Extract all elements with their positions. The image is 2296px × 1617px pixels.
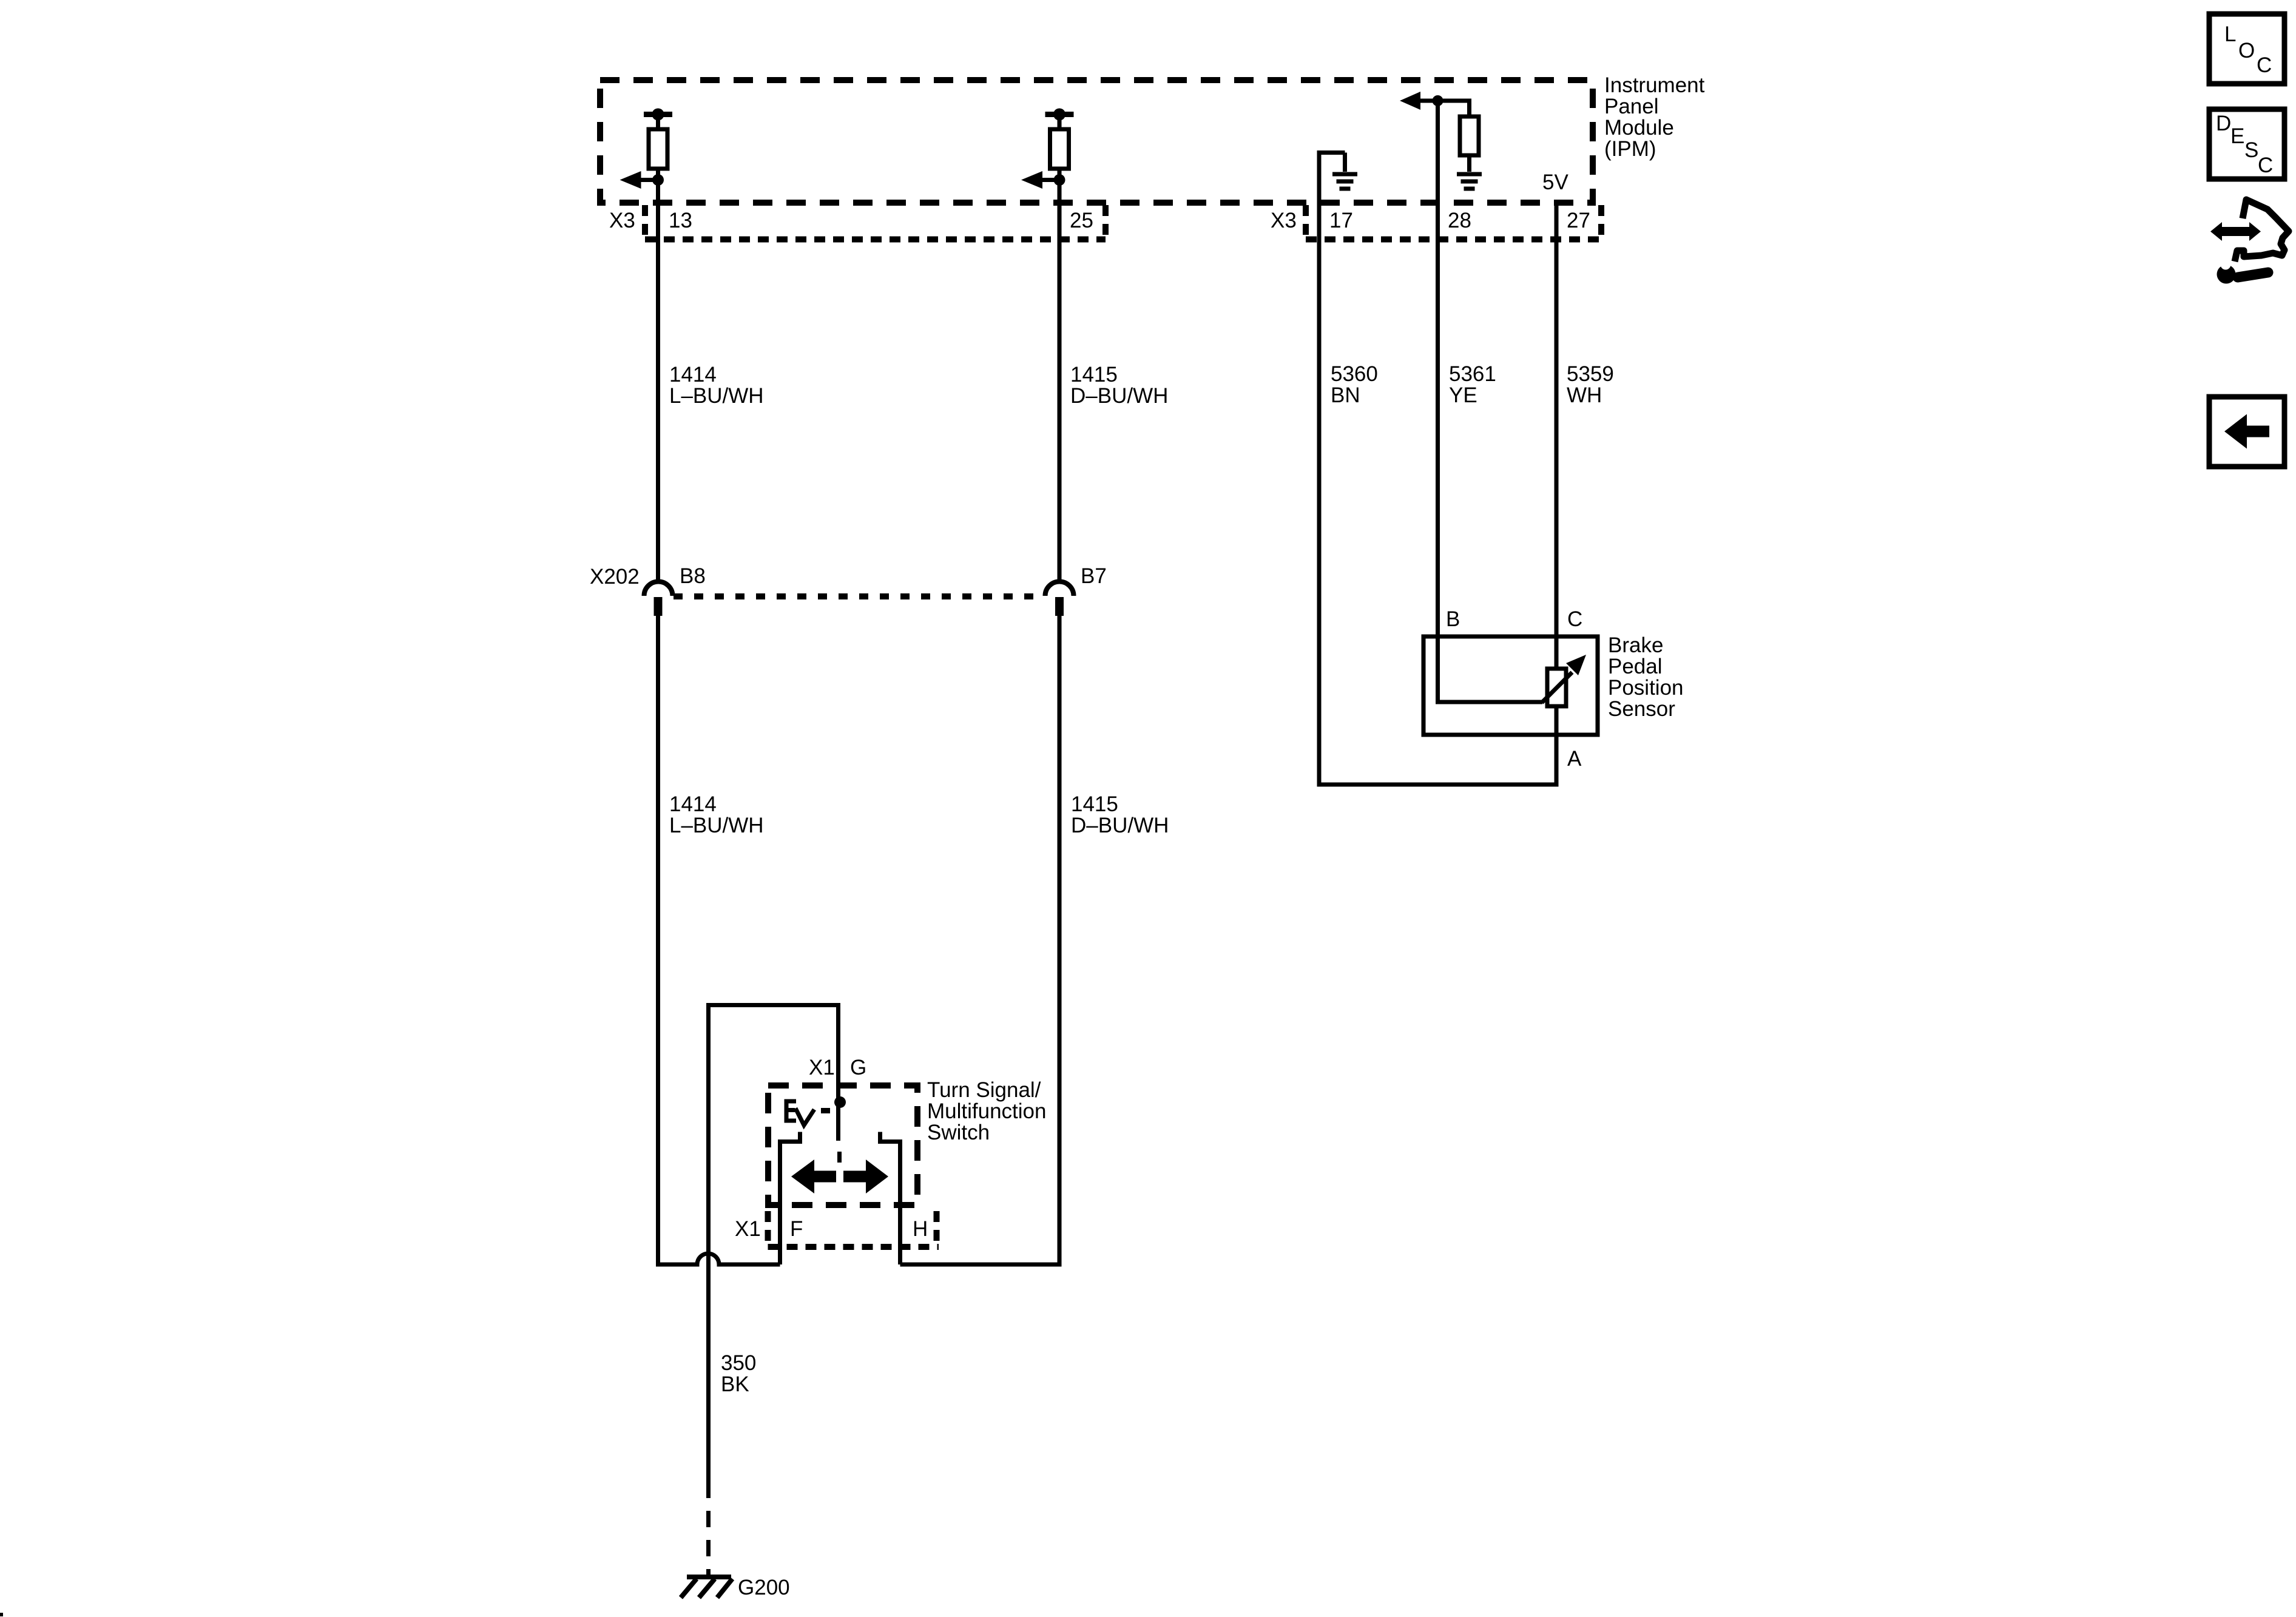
svg-text:G200: G200 <box>738 1576 790 1599</box>
svg-text:(IPM): (IPM) <box>1604 137 1656 161</box>
sensor wiper arrow <box>1542 672 1572 703</box>
arrow left (signal to pin 25) <box>1041 178 1060 182</box>
hand tool icon: double arrow <box>2210 200 2289 284</box>
svg-text:Sensor: Sensor <box>1608 697 1675 721</box>
node dot top of R13 <box>652 109 664 121</box>
connector X3 box (pins 17,28,27) <box>1306 205 1601 240</box>
X202 terminal arc B7 <box>1045 581 1074 596</box>
node junction dot pin13 <box>652 174 664 186</box>
DESC icon box <box>2209 109 2284 179</box>
svg-text:5360: 5360 <box>1331 362 1378 386</box>
svg-text:F: F <box>790 1217 803 1241</box>
svg-text:Panel: Panel <box>1604 95 1659 118</box>
svg-text:28: 28 <box>1448 209 1471 232</box>
resistor (pin 28 pull-down) <box>1460 116 1479 155</box>
wire 1414 upper (pin 13 to X202 B8) <box>656 115 660 582</box>
svg-text:27: 27 <box>1567 209 1590 232</box>
svg-text:Position: Position <box>1608 676 1684 700</box>
X202 terminal arc B8 <box>644 581 673 596</box>
svg-text:1415: 1415 <box>1071 792 1118 816</box>
wire 5361 YE (pin 28) to sensor wiper <box>1438 101 1543 702</box>
LOC icon box <box>2209 14 2284 84</box>
switch contact F <box>780 1132 800 1265</box>
arrow left (signal to pin 13) <box>640 178 658 182</box>
svg-text:Instrument: Instrument <box>1604 73 1705 97</box>
svg-text:O: O <box>2238 39 2255 62</box>
svg-text:17: 17 <box>1329 209 1353 232</box>
svg-text:B: B <box>1446 607 1460 631</box>
svg-text:X1: X1 <box>735 1217 761 1241</box>
svg-text:H: H <box>913 1217 928 1241</box>
svg-text:L–BU/WH: L–BU/WH <box>669 384 764 408</box>
svg-text:25: 25 <box>1070 209 1093 232</box>
svg-text:BK: BK <box>721 1372 749 1396</box>
resistor R25 body <box>1058 117 1062 129</box>
wire 5360 BN (pin 17) and sensor pin A loop <box>1319 153 1556 785</box>
svg-text:YE: YE <box>1449 383 1477 407</box>
sensor label <box>1608 633 1684 721</box>
connector X3 box (pins 13,25) <box>645 205 1106 240</box>
dashed contact link below G <box>837 1152 842 1163</box>
wire 1415 lower <box>900 616 1060 1264</box>
dashed ground wire <box>706 1511 711 1575</box>
wire 1414 lower with hop over ground wire <box>658 616 780 1264</box>
svg-text:X1: X1 <box>809 1056 835 1079</box>
switch pivot dot <box>834 1096 846 1108</box>
svg-text:Switch: Switch <box>927 1121 990 1144</box>
svg-text:350: 350 <box>721 1351 756 1375</box>
svg-text:Brake: Brake <box>1608 633 1663 657</box>
svg-text:D: D <box>2216 112 2231 135</box>
X202 dashed connector line <box>674 593 1044 599</box>
svg-text:X202: X202 <box>590 565 640 589</box>
back arrow icon box <box>2209 397 2284 467</box>
resistor R (pin 13 pull-up) tee bar <box>644 112 672 117</box>
node junction dot pin 28 <box>1433 95 1443 106</box>
ground loop wire (switch pin G to G200) <box>709 1005 839 1499</box>
svg-text:D–BU/WH: D–BU/WH <box>1071 814 1169 837</box>
IPM label <box>1604 73 1705 161</box>
node dot top of R25 <box>1053 109 1065 121</box>
svg-text:5361: 5361 <box>1449 362 1496 386</box>
arrow left (signal to pin 28) <box>1420 99 1438 103</box>
node junction dot pin25 <box>1054 174 1065 186</box>
sensor potentiometer resistor <box>1547 669 1566 706</box>
svg-text:Module: Module <box>1604 116 1674 140</box>
svg-text:X3: X3 <box>1271 209 1297 232</box>
svg-text:WH: WH <box>1567 383 1602 407</box>
svg-text:A: A <box>1567 747 1582 771</box>
svg-text:B8: B8 <box>680 564 706 588</box>
svg-text:13: 13 <box>669 209 692 232</box>
internal ground (pin 28 resistor) <box>1457 172 1482 177</box>
wire 1415 upper (pin 25 to X202 B7) <box>1058 115 1062 582</box>
svg-text:C: C <box>2257 53 2272 77</box>
svg-text:X3: X3 <box>609 209 635 232</box>
svg-text:D–BU/WH: D–BU/WH <box>1070 384 1168 408</box>
switch contact H <box>880 1132 900 1265</box>
hand tool icon: claw outline <box>2235 200 2289 262</box>
svg-text:5V: 5V <box>1542 170 1568 194</box>
stray mark bottom-left <box>0 1613 3 1616</box>
svg-text:E: E <box>2230 124 2244 148</box>
switch moving contact double arrow <box>791 1160 814 1193</box>
switch label <box>927 1078 1046 1144</box>
turn signal switch dashed box <box>768 1085 917 1205</box>
switch lever symbol <box>786 1101 796 1121</box>
wire from node 28 to resistor <box>1438 101 1470 116</box>
resistor R (pin 25 pull-up) tee bar <box>1045 112 1074 117</box>
svg-text:L: L <box>2224 22 2236 46</box>
resistor R13 body <box>656 117 660 129</box>
internal ground (pin 17) <box>1343 153 1347 172</box>
Instrument Panel Module (IPM) dashed box <box>600 80 1593 203</box>
svg-text:BN: BN <box>1331 383 1360 407</box>
svg-text:5359: 5359 <box>1567 362 1614 386</box>
X202 terminal pin B8 <box>654 597 663 616</box>
svg-text:C: C <box>2258 154 2273 177</box>
hand tool icon: wrench <box>2217 265 2236 284</box>
svg-text:G: G <box>850 1056 866 1079</box>
svg-text:1414: 1414 <box>669 363 717 387</box>
connector X1 box (pins F,H) <box>768 1211 939 1247</box>
X202 terminal pin B7 <box>1055 597 1064 616</box>
svg-text:Pedal: Pedal <box>1608 655 1663 678</box>
svg-text:Turn Signal/: Turn Signal/ <box>927 1078 1041 1102</box>
svg-text:S: S <box>2244 138 2258 162</box>
svg-text:1414: 1414 <box>669 792 717 816</box>
svg-text:Multifunction: Multifunction <box>927 1099 1046 1123</box>
svg-text:1415: 1415 <box>1070 363 1118 387</box>
brake pedal position sensor box <box>1423 636 1598 735</box>
lever dashed link <box>821 1108 830 1113</box>
svg-text:L–BU/WH: L–BU/WH <box>669 814 764 837</box>
svg-text:B7: B7 <box>1081 564 1107 588</box>
svg-text:C: C <box>1567 607 1582 631</box>
ground G200 symbol <box>687 1575 731 1579</box>
